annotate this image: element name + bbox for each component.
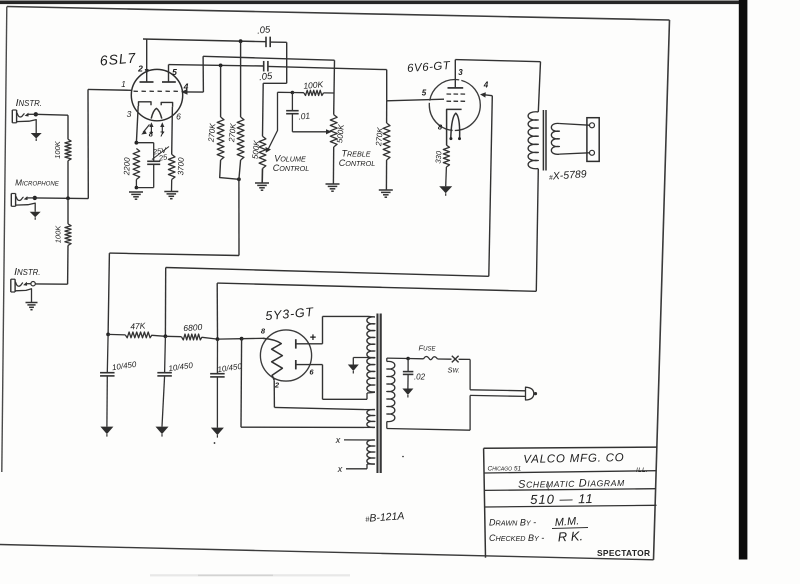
wire line B down to rail: [216, 283, 218, 339]
svg-text:6SL7: 6SL7: [99, 49, 137, 68]
svg-text:100K: 100K: [53, 140, 62, 159]
B-121A 5V winding: [367, 409, 375, 427]
wire primary bottom: [386, 422, 388, 429]
wire screen line A: [166, 268, 489, 277]
wire 6.3V bottom lead: [346, 468, 367, 470]
wire to 6V6 grid: [387, 99, 444, 101]
title block top edge: [484, 447, 658, 448]
resistor 100K input 2: [65, 224, 71, 246]
wire HV bottom lead: [367, 391, 375, 394]
volume pot 500K: [259, 136, 266, 168]
svg-text:47K: 47K: [130, 320, 146, 331]
capacitor 10/450 no1: [106, 334, 109, 372]
wire plate2 line L3: [169, 65, 264, 66]
jack J1 tip contact: [17, 113, 25, 117]
svg-text:TREBLE: TREBLE: [341, 149, 370, 159]
6SL7 pin 2 lead: [146, 39, 148, 82]
bias node arrow: [143, 125, 150, 133]
svg-text:+: +: [310, 332, 316, 344]
wire rail dot to 47K: [108, 333, 125, 336]
transformer X-5789 core: [542, 110, 544, 171]
wire down to volume top: [262, 83, 265, 136]
wire L2 down to pin4: [202, 56, 204, 92]
svg-text:270K: 270K: [207, 122, 218, 143]
jack J1 sleeve contact: [17, 120, 37, 133]
jack J2 tip contact: [16, 196, 24, 200]
B-121A primary winding: [387, 361, 395, 421]
wire line A down to rail: [164, 268, 166, 337]
wire 5V top lead: [364, 409, 375, 411]
fuse symbol: [408, 358, 423, 360]
svg-text:x: x: [335, 435, 341, 445]
wire 5V bottom lead: [364, 426, 375, 428]
6SL7 cathode tent: [151, 108, 162, 118]
wire node4 to 5Y3 pin8: [242, 337, 265, 339]
6V6 screen dashes: [447, 93, 452, 95]
resistor 100K input 1: [65, 139, 71, 160]
6SL7 cathode2 wire down: [171, 107, 174, 155]
wire cap A right: [270, 41, 287, 43]
jack J3 sleeve contact: [15, 289, 31, 303]
wire 6V6 screen down: [489, 96, 493, 277]
capacitor .05 B: [263, 61, 265, 71]
wire 6V6 plate top: [455, 60, 540, 62]
5Y3 plate 2: [295, 360, 297, 369]
node L3 270K dot: [219, 64, 223, 68]
wire cord bottom vert: [469, 395, 471, 430]
wire switch to corner: [459, 358, 471, 360]
ground at 270K-3: [379, 189, 393, 191]
jack J2 tip terminal dot: [33, 196, 37, 200]
svg-text:R K.: R K.: [557, 528, 583, 544]
wire cap A down: [286, 42, 288, 83]
svg-text:ILL.: ILL.: [636, 467, 648, 474]
resistor 270K 3: [383, 123, 390, 160]
node 2200 bottom dot: [135, 186, 139, 190]
svg-text:6800: 6800: [183, 322, 203, 333]
svg-text:x: x: [337, 464, 343, 474]
wire 2200 to gnd node: [135, 180, 137, 188]
6SL7 pin 7 arrow: [161, 126, 163, 134]
tube 6SL7 envelope: [131, 69, 182, 120]
capacitor .05 A: [265, 37, 267, 48]
frame right border: [654, 20, 670, 560]
5Y3 plate 1: [295, 339, 297, 348]
volume wiper: [268, 92, 278, 149]
svg-text:1: 1: [121, 80, 125, 89]
svg-text:M.M.: M.M.: [554, 515, 579, 529]
node 100K dot: [291, 91, 295, 95]
wire plate1 top line L1: [143, 39, 266, 42]
capacitor .02: [407, 359, 409, 372]
svg-text:100K: 100K: [303, 79, 324, 91]
wire cap A across: [263, 82, 287, 84]
ground at cap 3: [211, 428, 224, 436]
ground at volume: [255, 182, 269, 184]
stray pen tick: [547, 484, 550, 491]
top dark scanner strip: [0, 1, 747, 5]
svg-text:5: 5: [172, 67, 177, 77]
wire 5Y3 plate2 to HV bottom: [322, 365, 324, 400]
node L1 270K dot: [239, 39, 243, 43]
resistor 47K: [125, 332, 152, 338]
wire 270K-1 bottom bend: [220, 160, 239, 179]
svg-text:3700: 3700: [176, 157, 186, 176]
wire corner down: [469, 359, 471, 389]
wire 270K-1 top: [220, 65, 222, 117]
wire volume bottom: [261, 169, 263, 184]
ground at center tap: [348, 365, 359, 372]
tube 6V6 envelope: [429, 80, 480, 131]
svg-text:.01: .01: [298, 110, 311, 121]
wire 100K to mic node: [67, 161, 69, 199]
6V6 pin 3 lead: [454, 60, 456, 88]
ground at J1: [31, 133, 42, 139]
resistor 270K 1: [217, 117, 224, 160]
jack J3 body: [10, 279, 12, 292]
frame bottom border: [0, 545, 654, 560]
treble pot 500K: [330, 115, 337, 147]
5Y3 filament: [263, 338, 282, 380]
frame left border: [2, 7, 7, 473]
wire treble top vertical: [333, 60, 336, 114]
svg-text:VALCO MFG. CO: VALCO MFG. CO: [523, 452, 624, 466]
node rail 47K left dot: [106, 333, 110, 337]
power cord top: [470, 390, 525, 391]
wire plate supply down: [238, 179, 240, 255]
wire mic node down to R 100K 2: [67, 198, 69, 224]
capacitor 10/450 no3: [216, 339, 218, 374]
transformer X-5789 primary coil: [528, 112, 538, 169]
title block row line 1: [485, 471, 657, 473]
wire plate supply to rail: [108, 253, 109, 334]
switch X symbol: [452, 356, 459, 363]
node plate supply dot: [237, 177, 241, 181]
wire 5Y3 pin2 filament: [273, 380, 275, 407]
6SL7 plate bar triode 2: [162, 81, 176, 83]
wire 100K left node: [278, 91, 293, 93]
svg-text:INSTR.: INSTR.: [16, 98, 42, 109]
HV center tap: [353, 357, 375, 359]
6SL7 cathode cup triode 1: [139, 102, 152, 106]
node rail rect dot: [240, 337, 244, 341]
6V6 pin 4 wire: [483, 95, 493, 96]
wire rect node to 5V bottom: [241, 426, 364, 428]
wire 6.3V top lead: [344, 439, 375, 441]
6V6 plate bar: [448, 87, 464, 89]
wire OT primary top: [538, 62, 540, 112]
jack J1 body: [11, 110, 13, 123]
svg-text:3: 3: [458, 68, 463, 77]
transformer X-5789 secondary coil: [551, 123, 559, 154]
node rail lineB dot: [216, 337, 220, 341]
6SL7 pin 4 wire: [183, 91, 203, 93]
resistor 100K coupling: [304, 90, 324, 95]
ground at J3: [26, 302, 38, 304]
volume wiper arrowhead: [266, 147, 272, 153]
svg-text:CONTROL: CONTROL: [339, 158, 375, 168]
svg-text:.02: .02: [414, 373, 426, 382]
treble wiper arrowhead: [326, 129, 332, 134]
capacitor 10/450 no2: [164, 336, 167, 372]
svg-text:3: 3: [127, 109, 132, 119]
resistor 270K 2: [237, 117, 244, 160]
6V6 cathode wire: [445, 144, 447, 146]
speaker terminal strip: [587, 118, 599, 162]
tube 5Y3 envelope: [260, 330, 311, 381]
6SL7 grid dashes: [134, 90, 138, 92]
jack J1 tip terminal dot: [34, 112, 38, 116]
6SL7 pin 4 arrowhead: [181, 89, 188, 95]
wire node J1 down to R 100K: [67, 115, 69, 139]
node mic junction dot: [66, 196, 70, 200]
title block row line 2: [485, 489, 656, 491]
B-121A HV winding: [367, 317, 375, 392]
ground at J2: [30, 212, 41, 218]
wire 47K to node2: [152, 335, 165, 336]
wire cap bottom to 2200 bottom: [136, 187, 153, 189]
6SL7 pin 2 arrowhead: [145, 69, 149, 75]
wire 270K-3 bottom: [385, 160, 387, 190]
wire mic node up to pin1: [87, 89, 89, 198]
svg-text:2200: 2200: [122, 157, 132, 177]
resistor 330: [443, 145, 449, 167]
wire rect node down: [240, 339, 243, 428]
ground at .02: [402, 389, 413, 396]
6SL7 pin 5 lead: [168, 65, 170, 82]
speaker terminal bottom: [590, 150, 595, 155]
title block row line 3: [485, 505, 657, 507]
wire primary top: [386, 358, 388, 361]
wire OT primary bottom down: [536, 169, 538, 291]
ground at 2200: [129, 191, 143, 193]
wire HV top lead: [369, 315, 375, 318]
resistor 6800: [182, 334, 202, 340]
right black binding bar: [739, 0, 748, 560]
capacitor 25uF bias: [153, 143, 155, 162]
6V6 cathode arch: [451, 113, 460, 138]
jack J3 tip contact: [15, 282, 23, 286]
svg-text:330: 330: [433, 150, 443, 164]
svg-text:DRAWN BY -: DRAWN BY -: [489, 518, 536, 528]
wire 270K-2 bottom: [239, 160, 241, 179]
paper speck 1: [214, 442, 216, 444]
svg-text:5: 5: [422, 89, 427, 98]
6SL7 pin 1 wire: [88, 88, 131, 91]
wire secondary top to speaker: [559, 124, 589, 126]
title block left edge: [484, 448, 486, 557]
speaker terminal top: [590, 123, 595, 128]
capacitor .01: [291, 93, 293, 111]
wire cap B right: [268, 66, 387, 69]
wire dot to res: [292, 92, 304, 94]
wire node2 to 6800: [165, 335, 181, 337]
svg-text:CHICAGO 51: CHICAGO 51: [488, 466, 522, 473]
wire secondary bottom to speaker: [559, 153, 589, 154]
svg-text:SPECTATOR: SPECTATOR: [597, 548, 650, 558]
wire line B: [217, 283, 536, 291]
svg-text:MICROPHONE: MICROPHONE: [15, 178, 60, 187]
svg-text:6: 6: [176, 112, 181, 122]
6V6 grid dashes: [447, 100, 452, 102]
wire .01 to treble wiper: [292, 131, 327, 133]
wire treble bottom: [332, 147, 334, 184]
bottom faint streak: [150, 574, 350, 576]
wire grid2 line L2: [203, 56, 334, 60]
resistor 2200: [133, 149, 140, 180]
svg-text:2: 2: [137, 64, 143, 74]
node rail screen dot: [164, 334, 168, 338]
wire 100K right: [324, 92, 335, 94]
wire 330 to ground: [445, 167, 448, 186]
svg-text:.05: .05: [259, 71, 274, 83]
wire 6800 to node3: [202, 337, 218, 339]
6SL7 plate bar triode 1: [140, 81, 154, 83]
svg-text:510 — 11: 510 — 11: [530, 491, 594, 507]
6V6 beam plate bracket: [447, 109, 462, 145]
power cord bottom: [470, 395, 525, 396]
node cathode bias dot: [135, 141, 139, 145]
node fuse cap dot: [406, 357, 410, 361]
B-121A 6.3V winding: [367, 440, 375, 464]
paper speck 2: [402, 456, 404, 458]
ground at treble: [326, 183, 340, 185]
wire fuse to switch: [438, 358, 452, 360]
wire 270K-2 top: [240, 41, 242, 117]
ground at cap 2: [156, 427, 169, 435]
wire plate supply across: [109, 253, 239, 255]
svg-text:VOLUME: VOLUME: [274, 154, 306, 164]
jack J2 sleeve contact: [16, 203, 36, 212]
svg-text:CHECKED BY -: CHECKED BY -: [489, 533, 544, 543]
jack J2 body: [10, 194, 12, 207]
transformer B-121A core: [377, 314, 381, 474]
mains plug: [526, 387, 534, 400]
svg-text:.05: .05: [257, 24, 272, 36]
wire J2 tip to mic node: [27, 197, 35, 199]
jack J3 tip terminal ring: [31, 282, 35, 286]
frame top border: [7, 7, 670, 21]
wire J1 tip to node: [28, 113, 36, 115]
wire node3 to node4: [218, 338, 242, 340]
resistor 3700: [168, 154, 175, 179]
wire 5Y3 plate1 to HV top: [322, 316, 324, 343]
wire bias node to cap: [136, 142, 153, 144]
svg-text:INSTR.: INSTR.: [14, 267, 40, 278]
wire 270K-3 top: [386, 101, 388, 123]
ground at cap 1: [100, 427, 113, 435]
svg-text:270K: 270K: [227, 122, 238, 143]
6SL7 cathode1 wire down: [136, 106, 138, 143]
ground at 3700: [164, 191, 178, 193]
svg-text:100K: 100K: [53, 225, 62, 244]
6SL7 cathode cup triode 2: [161, 102, 172, 106]
wire J3 tip to node: [26, 283, 31, 285]
svg-text:4: 4: [483, 81, 489, 90]
6SL7 pin 8 arrow: [150, 126, 152, 134]
wire 3700 to ground: [171, 180, 173, 192]
svg-text:CONTROL: CONTROL: [273, 163, 309, 173]
wire cap B down: [386, 70, 388, 101]
ground at 330: [439, 186, 452, 193]
wire 100K-2 to J3: [67, 245, 69, 284]
